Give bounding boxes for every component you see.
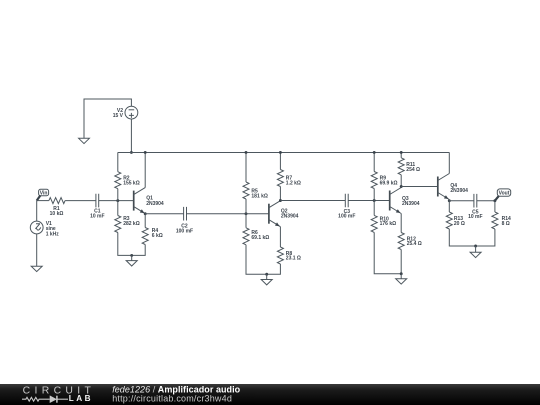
voltage source V1 [36, 201, 38, 222]
resistor R4 [142, 228, 148, 245]
capacitor C3 [345, 194, 348, 208]
svg-text:69.9 kΩ: 69.9 kΩ [380, 181, 398, 187]
svg-text:181 kΩ: 181 kΩ [251, 193, 268, 199]
wire R7 to Q2 collector node [279, 187, 281, 201]
wire junction to Q4 base [401, 186, 438, 188]
svg-text:100 mF: 100 mF [176, 229, 193, 235]
capacitor C1 [96, 194, 99, 208]
wire rail to R9 [373, 152, 375, 171]
wire rail to R11 [400, 152, 402, 157]
node Q1 emitter [144, 212, 147, 215]
wire R2 to base node [117, 189, 119, 201]
logo resistor+diode+LAB row [22, 397, 50, 401]
resistor R8 [277, 247, 283, 264]
svg-text:282 kΩ: 282 kΩ [123, 221, 140, 227]
node Vout [493, 199, 496, 202]
ground under V1 [31, 266, 42, 271]
ground output [474, 245, 477, 248]
transistor Q4 [437, 177, 439, 197]
voltage source V2 [125, 106, 138, 119]
wire R13 to bottom [449, 229, 495, 246]
svg-text:155 kΩ: 155 kΩ [123, 180, 140, 186]
wire rail to R7 [279, 152, 281, 169]
wire rail to R5 [245, 152, 247, 182]
wire Q1 emitter to C2 [145, 213, 183, 215]
wire rail to R2 [117, 152, 119, 171]
node Vout flag [497, 189, 510, 196]
wire C5 to Vout node [477, 200, 495, 202]
wire Q1 collector to rail [144, 152, 146, 187]
wire R3 to bottom [118, 233, 145, 256]
svg-text:2N3904: 2N3904 [146, 201, 164, 207]
transistor Q3 [389, 191, 391, 211]
node R5/R6 junction [245, 212, 248, 215]
svg-text:10 kΩ: 10 kΩ [50, 211, 64, 217]
transistor Q2 [268, 204, 270, 224]
svg-text:2N3904: 2N3904 [402, 201, 420, 207]
ground stage1 [130, 254, 133, 257]
node R2/R3/base junction [116, 199, 119, 202]
capacitor C5 [474, 194, 477, 208]
capacitor C2 [184, 207, 187, 221]
wire R6 to bottom [246, 245, 280, 274]
node R9/R10 junction [373, 199, 376, 202]
wire V1 to ground [36, 234, 38, 266]
wire Q4 emitter to C5 [449, 200, 474, 202]
wire C1 to Q1 base [99, 200, 134, 202]
wire Q3 emitter to R12 [400, 214, 402, 233]
svg-text:25.4 Ω: 25.4 Ω [407, 241, 422, 247]
resistor R14 [492, 212, 498, 229]
wire V2 bottom to rail [130, 119, 132, 152]
wire Vin node to R1 [37, 200, 49, 202]
resistor R13 [446, 212, 452, 229]
wire R5 to base node [245, 199, 247, 214]
svg-text:10 mF: 10 mF [468, 214, 482, 220]
wire C2 to Q2 base [187, 213, 269, 215]
svg-text:2N3904: 2N3904 [450, 188, 468, 194]
ground stage3 [400, 272, 403, 275]
svg-text:http://circuitlab.com/cr3hw4d: http://circuitlab.com/cr3hw4d [112, 394, 232, 404]
wire Q2 emitter to R8 [279, 227, 281, 247]
svg-text:176 kΩ: 176 kΩ [380, 221, 397, 227]
svg-text:1 kHz: 1 kHz [46, 232, 60, 238]
svg-text:LAB: LAB [69, 394, 93, 403]
svg-text:8 Ω: 8 Ω [502, 221, 510, 227]
wire Q4 collector to rail [448, 152, 450, 173]
wire R9 to base node [373, 189, 375, 201]
wire base node to R3 [117, 201, 119, 216]
wire R10 to bottom [374, 232, 401, 273]
svg-text:1.2 kΩ: 1.2 kΩ [286, 181, 301, 187]
node Vin flag [39, 189, 49, 195]
svg-text:6 kΩ: 6 kΩ [152, 233, 163, 239]
wire Q1 emitter to R4 [144, 214, 146, 228]
footer bar [0, 384, 540, 405]
ground stage2 [265, 273, 268, 276]
resistor R6 [243, 228, 249, 245]
wire V2 top to ground [84, 99, 131, 138]
node R11/Q3/Q4 junction [400, 185, 403, 188]
resistor R2 [115, 172, 121, 189]
svg-text:100 mF: 100 mF [338, 214, 355, 220]
resistor R11 [398, 158, 404, 175]
resistor R3 [115, 216, 121, 233]
wire supply rail [118, 152, 450, 154]
svg-text:10 mF: 10 mF [90, 213, 104, 219]
resistor R1 [49, 198, 65, 204]
wire C3 to Q3 base [348, 200, 390, 202]
resistor R10 [371, 215, 377, 232]
node Q2 collector [279, 199, 282, 202]
wire base node to R10 [373, 201, 375, 216]
resistor R12 [398, 233, 404, 250]
wire R1 to C1 [65, 200, 96, 202]
wire base node to R6 [245, 214, 247, 228]
svg-text:254 Ω: 254 Ω [406, 167, 420, 173]
transistor Q1 [133, 191, 135, 211]
svg-text:15 V: 15 V [113, 113, 124, 119]
svg-text:Vout: Vout [499, 191, 510, 197]
svg-text:2N3904: 2N3904 [281, 213, 299, 219]
resistor R5 [243, 182, 249, 199]
resistor R7 [277, 170, 283, 187]
wire R11 to junction [400, 175, 402, 188]
resistor R9 [371, 172, 377, 189]
ground near V2 [79, 138, 90, 143]
svg-text:Vin: Vin [40, 190, 48, 196]
wire Q2 collector to C3 [280, 200, 345, 202]
wire Vout node to R14 [494, 201, 496, 212]
node Q4 emitter [448, 199, 451, 202]
svg-text:69.1 kΩ: 69.1 kΩ [251, 235, 269, 241]
svg-text:20 Ω: 20 Ω [454, 221, 465, 227]
svg-text:23.1 Ω: 23.1 Ω [286, 256, 301, 262]
